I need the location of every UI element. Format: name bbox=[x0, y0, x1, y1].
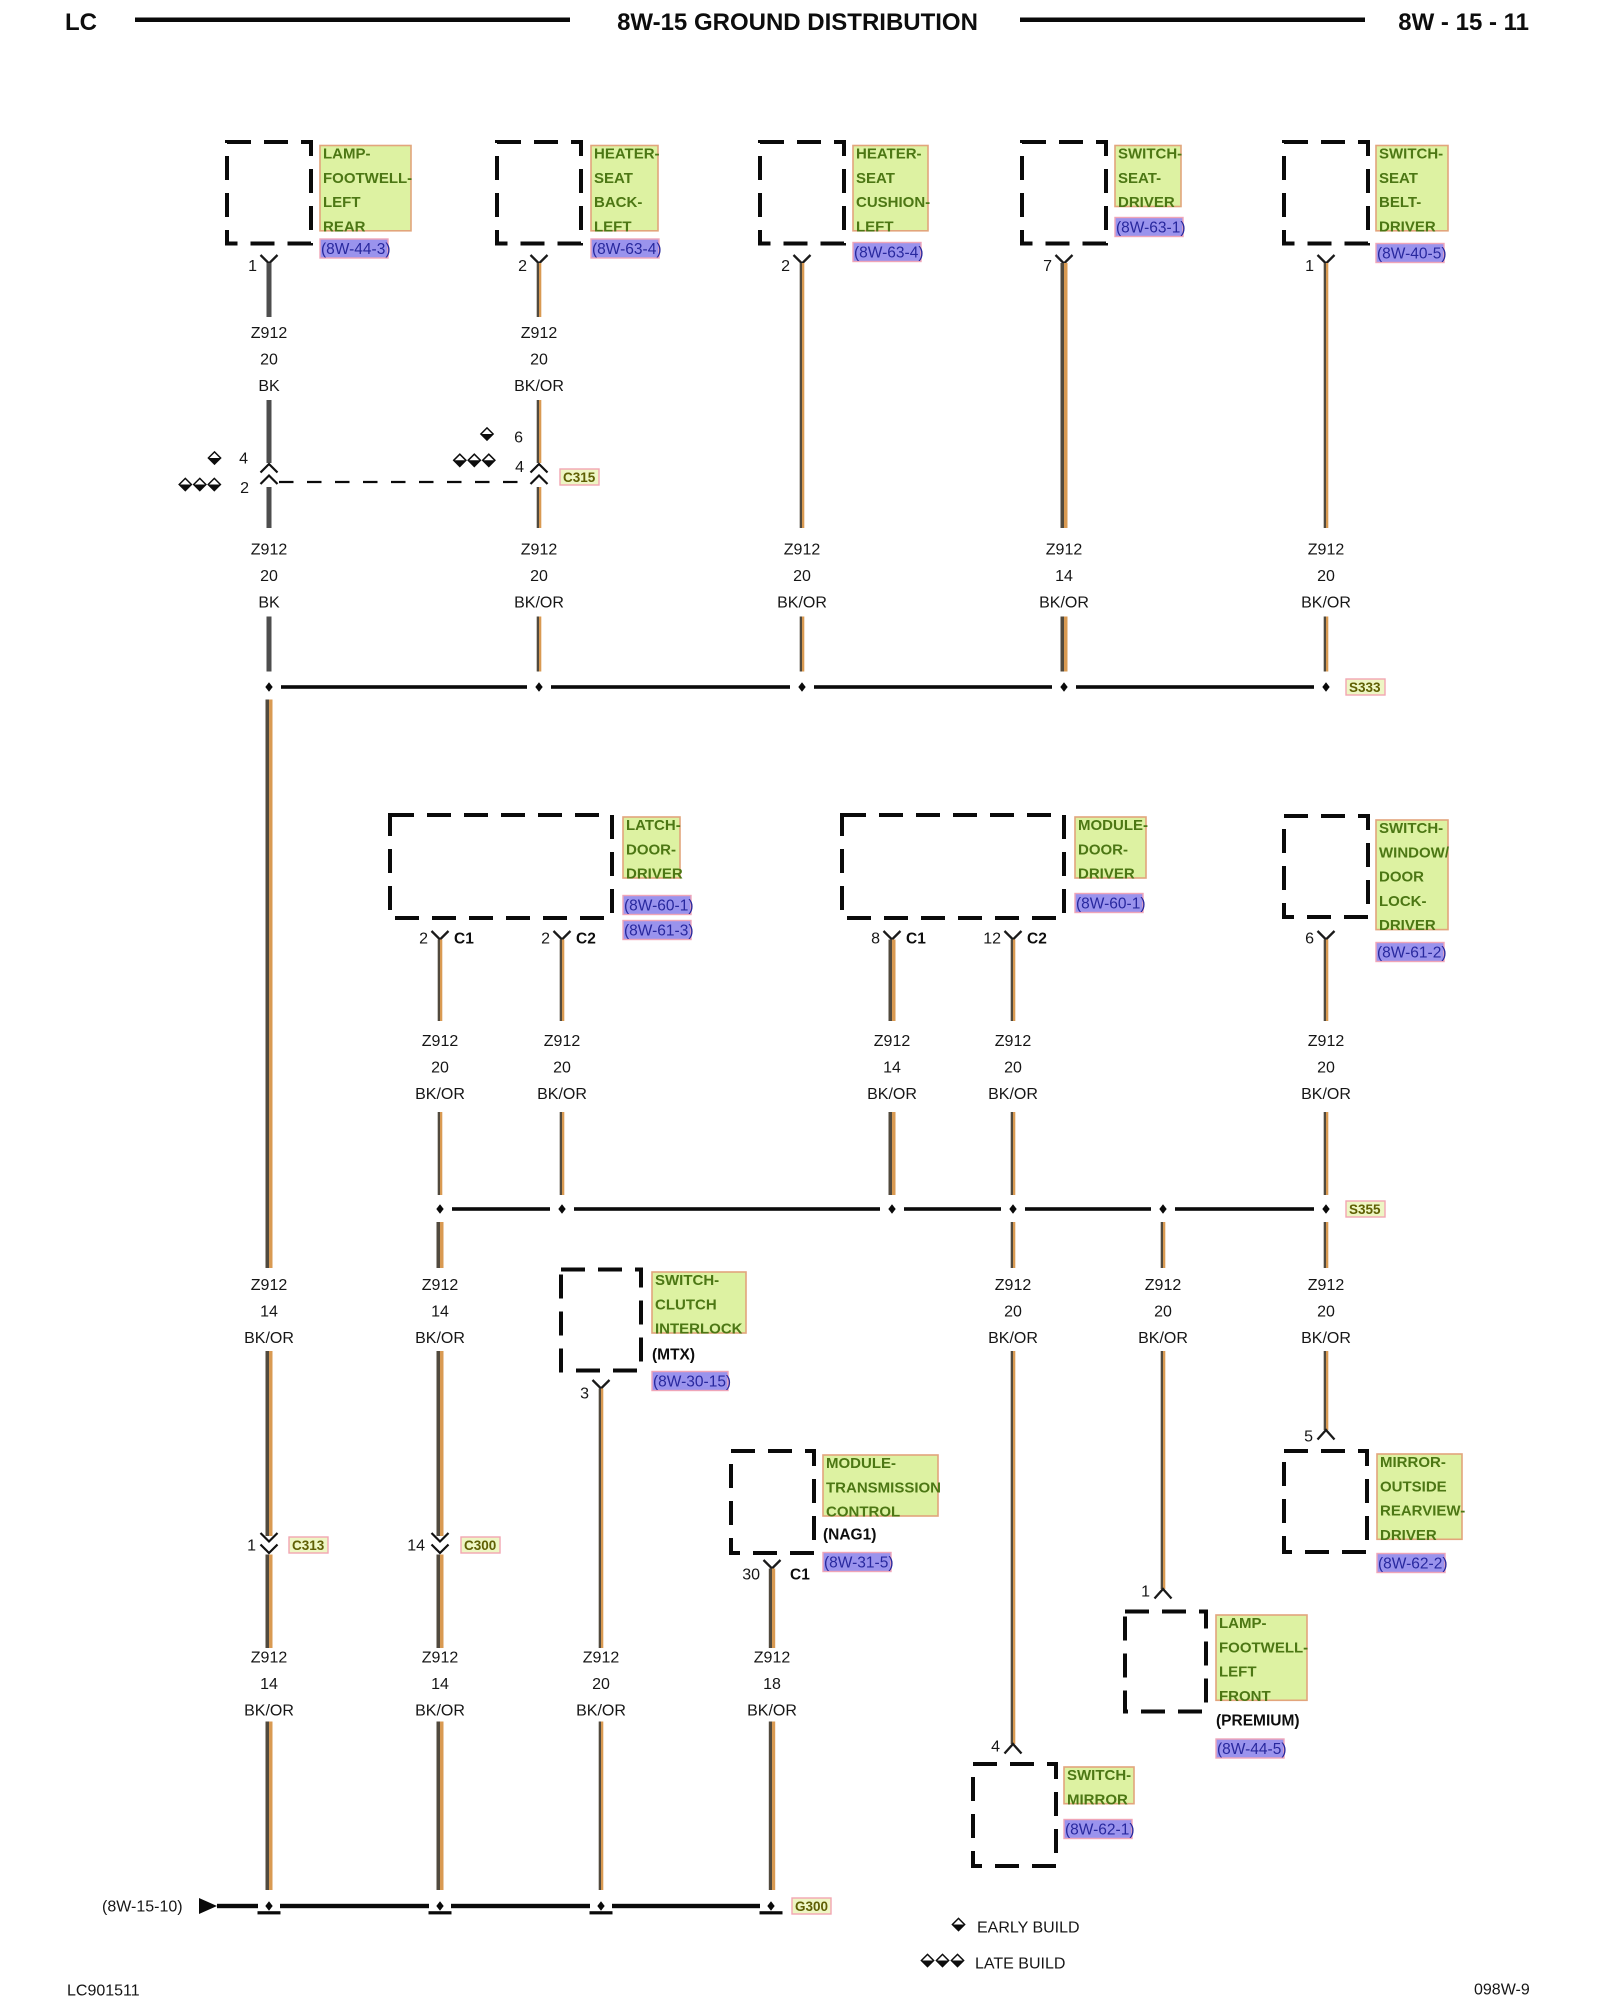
svg-text:LEFT: LEFT bbox=[594, 218, 632, 235]
svg-text:TRANSMISSION: TRANSMISSION bbox=[826, 1479, 941, 1496]
svg-text:2: 2 bbox=[419, 930, 428, 947]
svg-text:20: 20 bbox=[530, 568, 548, 585]
header rule right bbox=[1020, 18, 1365, 23]
svg-text:(8W-61-2): (8W-61-2) bbox=[1377, 944, 1446, 961]
page ref (8W-63-1) bbox=[1115, 218, 1183, 237]
svg-text:C1: C1 bbox=[790, 1566, 810, 1583]
svg-text:(8W-15-10): (8W-15-10) bbox=[102, 1898, 183, 1915]
svg-text:Z912: Z912 bbox=[583, 1649, 620, 1666]
wire Z912 14 BK/OR below S355 (x=440) bbox=[437, 1222, 441, 1268]
svg-text:(8W-60-1): (8W-60-1) bbox=[1076, 895, 1145, 912]
svg-text:18: 18 bbox=[763, 1676, 781, 1693]
svg-text:BK/OR: BK/OR bbox=[988, 1086, 1038, 1103]
wire segment bbox=[1324, 617, 1326, 672]
svg-text:(NAG1): (NAG1) bbox=[823, 1527, 876, 1544]
svg-text:CLUTCH: CLUTCH bbox=[655, 1296, 717, 1313]
wire segment bbox=[437, 1351, 441, 1536]
component box: HEATER-SEAT BACK-LEFT bbox=[497, 142, 581, 244]
svg-text:20: 20 bbox=[530, 351, 548, 368]
component box: LAMP-FOOTWELL-LEFT REAR bbox=[227, 142, 311, 244]
svg-text:2: 2 bbox=[781, 258, 790, 275]
svg-text:LOCK-: LOCK- bbox=[1379, 893, 1427, 910]
svg-text:DOOR-: DOOR- bbox=[1078, 841, 1128, 858]
svg-text:BK/OR: BK/OR bbox=[244, 1702, 294, 1719]
svg-text:2: 2 bbox=[518, 258, 527, 275]
wire Z912 20 BK/OR (x=1326) bbox=[1324, 940, 1326, 1022]
svg-text:7: 7 bbox=[1043, 258, 1052, 275]
header rule left bbox=[135, 18, 570, 23]
page ref (8W-63-4) bbox=[591, 239, 659, 258]
svg-text:20: 20 bbox=[260, 351, 278, 368]
name label: SWITCH-CLUTCH INTERLOCK bbox=[652, 1272, 746, 1333]
svg-text:DRIVER: DRIVER bbox=[1379, 218, 1436, 235]
name label: SWITCH-WINDOW/DOOR LOCK-DRIVER bbox=[1376, 820, 1448, 930]
wire Z912 BK/OR from HEATER-SEAT BACK-LEFT pin 2 bbox=[537, 263, 539, 317]
svg-text:SWITCH-: SWITCH- bbox=[1379, 146, 1443, 163]
svg-text:SWITCH-: SWITCH- bbox=[1118, 146, 1182, 163]
svg-text:Z912: Z912 bbox=[1308, 1033, 1345, 1050]
svg-text:Z912: Z912 bbox=[1145, 1277, 1182, 1294]
svg-text:LEFT: LEFT bbox=[1219, 1664, 1257, 1681]
svg-text:(8W-44-5): (8W-44-5) bbox=[1217, 1741, 1286, 1758]
pin 6 connector fork bbox=[1318, 931, 1335, 940]
wire segment below C313 bbox=[266, 1555, 270, 1649]
svg-text:5: 5 bbox=[1304, 1428, 1313, 1445]
svg-text:BK/OR: BK/OR bbox=[537, 1086, 587, 1103]
name label: MIRROR-OUTSIDE REARVIEW-DRIVER bbox=[1377, 1454, 1462, 1539]
svg-text:Z912: Z912 bbox=[995, 1277, 1032, 1294]
wire segment below C315 (wire 2) bbox=[537, 487, 539, 528]
wire Z912 14 BK/OR from S333 down (left column) bbox=[266, 700, 270, 1269]
pin 4 connector chevron bbox=[1005, 1744, 1022, 1754]
legend late-build diamonds bbox=[921, 1954, 933, 1966]
svg-text:S333: S333 bbox=[1349, 680, 1381, 695]
svg-text:S355: S355 bbox=[1349, 1202, 1381, 1217]
pin 30 connector fork C1 bbox=[764, 1560, 781, 1569]
svg-text:FOOTWELL-: FOOTWELL- bbox=[1219, 1639, 1308, 1656]
svg-text:4: 4 bbox=[239, 450, 248, 467]
pin 2 connector fork C1 bbox=[432, 931, 449, 940]
svg-text:098W-9: 098W-9 bbox=[1474, 1981, 1530, 1998]
svg-text:(8W-62-1): (8W-62-1) bbox=[1065, 1821, 1134, 1838]
svg-text:C1: C1 bbox=[906, 930, 926, 947]
connector C315 chevrons on wire 2 bbox=[531, 464, 548, 473]
svg-text:Z912: Z912 bbox=[874, 1033, 911, 1050]
ground bus G300 bbox=[217, 1904, 258, 1908]
pin 2 connector fork C2 bbox=[554, 931, 571, 940]
name label: LAMP-FOOTWELL-LEFT FRONT bbox=[1216, 1615, 1307, 1700]
pin 12 connector fork C2 bbox=[1005, 931, 1022, 940]
svg-text:1: 1 bbox=[1305, 258, 1314, 275]
wire segment bbox=[1061, 617, 1065, 672]
svg-text:DOOR: DOOR bbox=[1379, 869, 1424, 886]
splice label S355 bbox=[1346, 1201, 1385, 1217]
svg-text:Z912: Z912 bbox=[521, 541, 558, 558]
page ref (8W-30-15) bbox=[652, 1372, 728, 1391]
pin 2 connector fork bbox=[794, 255, 811, 264]
svg-text:EARLY BUILD: EARLY BUILD bbox=[977, 1919, 1080, 1936]
wire segment to G300 bbox=[437, 1722, 441, 1891]
svg-text:20: 20 bbox=[1004, 1060, 1022, 1077]
svg-text:Z912: Z912 bbox=[251, 325, 288, 342]
wire segment down to switch-mirror bbox=[1011, 1351, 1013, 1744]
page ref (8W-61-2) bbox=[1376, 943, 1444, 962]
svg-text:BK/OR: BK/OR bbox=[415, 1702, 465, 1719]
svg-text:Z912: Z912 bbox=[422, 1277, 459, 1294]
svg-text:20: 20 bbox=[553, 1060, 571, 1077]
pin 5 connector chevron bbox=[1318, 1430, 1335, 1440]
svg-text:C2: C2 bbox=[1027, 930, 1047, 947]
svg-text:BK/OR: BK/OR bbox=[1301, 594, 1351, 611]
svg-text:30: 30 bbox=[742, 1566, 760, 1583]
junction at x=802 on S333 bbox=[798, 682, 805, 691]
wire Z912 BK/OR from SWITCH-SEAT-DRIVER pin 7 bbox=[1061, 263, 1065, 528]
name label: MODULE-DOOR-DRIVER bbox=[1075, 817, 1146, 878]
page ref (8W-44-5) bbox=[1216, 1739, 1284, 1758]
component box: SWITCH-SEAT-DRIVER bbox=[1022, 142, 1106, 244]
svg-text:20: 20 bbox=[1154, 1303, 1172, 1320]
wire segment bbox=[267, 400, 272, 463]
component box: SWITCH-MIRROR bbox=[973, 1764, 1056, 1866]
svg-text:BK/OR: BK/OR bbox=[867, 1086, 917, 1103]
svg-text:(8W-62-2): (8W-62-2) bbox=[1378, 1555, 1447, 1572]
junction at x=562 on S355 bbox=[558, 1204, 565, 1213]
svg-text:Z912: Z912 bbox=[544, 1033, 581, 1050]
svg-text:8W - 15 - 11: 8W - 15 - 11 bbox=[1398, 9, 1529, 36]
svg-text:HEATER-: HEATER- bbox=[856, 146, 922, 163]
late build diamonds (wire 1, pin 2) bbox=[179, 478, 191, 490]
svg-text:14: 14 bbox=[260, 1303, 278, 1320]
component box: MIRROR-OUTSIDE REARVIEW-DRIVER bbox=[1284, 1451, 1367, 1552]
svg-text:INTERLOCK: INTERLOCK bbox=[655, 1321, 743, 1338]
wire Z912 20 BK/OR (x=440) bbox=[438, 940, 440, 1022]
wire Z912 20 BK/OR (x=562) bbox=[560, 940, 562, 1022]
wire Z912 20 BK/OR below S355 (x=1326) bbox=[1324, 1222, 1326, 1268]
svg-text:C313: C313 bbox=[292, 1538, 325, 1553]
dashed tie line between C315 halves bbox=[279, 481, 529, 483]
svg-text:BK/OR: BK/OR bbox=[747, 1702, 797, 1719]
junction at x=1013 on S355 bbox=[1009, 1204, 1016, 1213]
svg-text:(8W-61-3): (8W-61-3) bbox=[624, 922, 693, 939]
svg-text:LEFT: LEFT bbox=[856, 218, 894, 235]
svg-text:20: 20 bbox=[1317, 1060, 1335, 1077]
svg-text:SEAT-: SEAT- bbox=[1118, 170, 1161, 187]
svg-text:14: 14 bbox=[1055, 568, 1073, 585]
svg-text:LAMP-: LAMP- bbox=[1219, 1615, 1267, 1632]
component box: MODULE-TRANSMISSION CONTROL bbox=[731, 1451, 814, 1553]
svg-text:LATE BUILD: LATE BUILD bbox=[975, 1955, 1065, 1972]
svg-text:BELT-: BELT- bbox=[1379, 194, 1421, 211]
svg-text:DRIVER: DRIVER bbox=[1118, 194, 1175, 211]
pin 8 connector fork C1 bbox=[884, 931, 901, 940]
svg-text:2: 2 bbox=[541, 930, 550, 947]
wire segment bbox=[537, 400, 539, 463]
svg-text:REAR: REAR bbox=[323, 218, 366, 235]
component box: SWITCH-WINDOW/DOOR LOCK-DRIVER bbox=[1284, 816, 1368, 917]
svg-text:Z912: Z912 bbox=[995, 1033, 1032, 1050]
svg-text:SWITCH-: SWITCH- bbox=[1379, 820, 1443, 837]
pin 1 connector chevron bbox=[1155, 1589, 1172, 1599]
name label: SWITCH-SEAT-DRIVER bbox=[1115, 146, 1181, 207]
svg-text:LEFT: LEFT bbox=[323, 194, 361, 211]
ground junction at x=440 bbox=[436, 1901, 443, 1910]
svg-text:LAMP-: LAMP- bbox=[323, 146, 371, 163]
wire segment below C300 bbox=[437, 1555, 441, 1649]
svg-text:(8W-30-15): (8W-30-15) bbox=[653, 1373, 731, 1390]
svg-text:LC: LC bbox=[65, 9, 97, 36]
svg-text:8W-15 GROUND DISTRIBUTION: 8W-15 GROUND DISTRIBUTION bbox=[617, 9, 978, 36]
name label: SWITCH-MIRROR bbox=[1064, 1767, 1134, 1804]
connector C313 chevrons bbox=[261, 1533, 278, 1542]
wire Z912 20 BK/OR below S355 (x=1013) bbox=[1011, 1222, 1013, 1268]
page ref (8W-31-5) bbox=[823, 1553, 891, 1572]
pin 2 connector fork bbox=[531, 255, 548, 264]
svg-text:(PREMIUM): (PREMIUM) bbox=[1216, 1713, 1300, 1730]
svg-text:FOOTWELL-: FOOTWELL- bbox=[323, 170, 412, 187]
svg-text:8: 8 bbox=[871, 930, 880, 947]
connector C300 chevrons bbox=[432, 1533, 449, 1542]
page ref (8W-44-3) bbox=[320, 239, 388, 258]
ground junction at x=771 bbox=[767, 1901, 774, 1910]
svg-text:4: 4 bbox=[515, 459, 524, 476]
wire Z912 18 BK/OR from TCM bbox=[769, 1569, 772, 1649]
svg-text:Z912: Z912 bbox=[251, 1649, 288, 1666]
svg-text:14: 14 bbox=[407, 1537, 425, 1554]
wire segment bbox=[1324, 1112, 1326, 1195]
svg-text:SEAT: SEAT bbox=[1379, 170, 1418, 187]
svg-text:6: 6 bbox=[1305, 930, 1314, 947]
page ref (8W-62-1) bbox=[1064, 1820, 1132, 1839]
svg-text:1: 1 bbox=[247, 1537, 256, 1554]
svg-text:SEAT: SEAT bbox=[594, 170, 633, 187]
svg-text:14: 14 bbox=[260, 1676, 278, 1693]
name label: HEATER-SEAT BACK-LEFT bbox=[591, 146, 658, 231]
svg-text:BK/OR: BK/OR bbox=[1039, 594, 1089, 611]
svg-text:OUTSIDE: OUTSIDE bbox=[1380, 1478, 1447, 1495]
page ref (8W-60-1) bbox=[623, 896, 691, 915]
wire Z912 20 BK/OR below S355 (x=1163) bbox=[1161, 1222, 1163, 1268]
svg-text:BK/OR: BK/OR bbox=[514, 594, 564, 611]
wire segment down to footwell lamp bbox=[1161, 1351, 1163, 1589]
wire segment bbox=[537, 617, 539, 672]
page ref (8W-40-5) bbox=[1376, 244, 1444, 263]
wire Z912 20 BK/OR from clutch switch bbox=[599, 1389, 601, 1649]
svg-text:MIRROR: MIRROR bbox=[1067, 1791, 1128, 1808]
name label: MODULE-TRANSMISSION CONTROL bbox=[823, 1455, 938, 1516]
svg-text:HEATER-: HEATER- bbox=[594, 146, 660, 163]
svg-text:20: 20 bbox=[260, 568, 278, 585]
connector label C300 bbox=[461, 1537, 500, 1553]
svg-text:SEAT: SEAT bbox=[856, 170, 895, 187]
wire segment bbox=[800, 617, 802, 672]
svg-text:DRIVER: DRIVER bbox=[1379, 917, 1436, 934]
connector C315 chevrons on wire 1 bbox=[261, 464, 278, 473]
svg-text:DRIVER: DRIVER bbox=[1380, 1527, 1437, 1544]
wire segment down to outside mirror bbox=[1324, 1351, 1326, 1430]
legend early-build diamond bbox=[952, 1918, 964, 1930]
junction at x=1326 on S355 bbox=[1322, 1204, 1329, 1213]
svg-text:BACK-: BACK- bbox=[594, 194, 642, 211]
junction at x=269 on S333 bbox=[265, 682, 272, 691]
svg-text:MIRROR-: MIRROR- bbox=[1380, 1454, 1446, 1471]
svg-text:(8W-31-5): (8W-31-5) bbox=[824, 1554, 893, 1571]
svg-text:BK/OR: BK/OR bbox=[988, 1330, 1038, 1347]
svg-text:BK/OR: BK/OR bbox=[415, 1086, 465, 1103]
component box: HEATER-SEAT CUSHION-LEFT bbox=[760, 142, 844, 244]
svg-text:BK/OR: BK/OR bbox=[1138, 1330, 1188, 1347]
wire segment bbox=[266, 1351, 270, 1536]
svg-text:(8W-63-4): (8W-63-4) bbox=[854, 244, 923, 261]
svg-text:14: 14 bbox=[431, 1303, 449, 1320]
wire Z912 BK from LAMP-FOOTWELL-LEFT REAR pin 1 bbox=[267, 263, 272, 317]
svg-text:6: 6 bbox=[514, 429, 523, 446]
svg-text:20: 20 bbox=[1317, 1303, 1335, 1320]
svg-text:DOOR-: DOOR- bbox=[626, 841, 676, 858]
splice bus S333 bbox=[281, 685, 527, 689]
svg-text:SWITCH-: SWITCH- bbox=[1067, 1767, 1131, 1784]
name label: LAMP-FOOTWELL-LEFT REAR bbox=[320, 146, 411, 231]
svg-text:BK/OR: BK/OR bbox=[777, 594, 827, 611]
svg-text:DRIVER: DRIVER bbox=[1078, 866, 1135, 883]
wire Z912 BK/OR from SWITCH-SEAT BELT-DRIVER pin 1 bbox=[1324, 263, 1326, 528]
svg-text:4: 4 bbox=[991, 1738, 1000, 1755]
svg-text:C1: C1 bbox=[454, 930, 474, 947]
svg-text:(8W-44-3): (8W-44-3) bbox=[321, 241, 390, 258]
svg-text:MODULE-: MODULE- bbox=[826, 1455, 896, 1472]
connector label C313 bbox=[289, 1537, 328, 1553]
svg-text:CUSHION-: CUSHION- bbox=[856, 194, 930, 211]
component box: LATCH-DOOR-DRIVER bbox=[390, 815, 612, 918]
junction at x=892 on S355 bbox=[888, 1204, 895, 1213]
wire segment to G300 bbox=[266, 1722, 270, 1891]
svg-text:C315: C315 bbox=[563, 470, 596, 485]
late build diamonds (wire 2, pin 4) bbox=[454, 454, 466, 466]
off-page arrow bbox=[199, 1898, 217, 1914]
svg-text:BK/OR: BK/OR bbox=[514, 378, 564, 395]
wire segment bbox=[267, 617, 272, 672]
page ref (8W-63-4) bbox=[853, 243, 921, 262]
svg-text:LC901511: LC901511 bbox=[67, 1982, 140, 1999]
wire segment to G300 bbox=[599, 1722, 601, 1891]
svg-text:REARVIEW-: REARVIEW- bbox=[1380, 1503, 1465, 1520]
ground label G300 bbox=[792, 1898, 831, 1914]
page ref (8W-60-1) bbox=[1075, 894, 1143, 913]
page ref (8W-61-3) bbox=[623, 921, 691, 940]
junction at x=440 on S355 bbox=[436, 1204, 443, 1213]
svg-text:(8W-60-1): (8W-60-1) bbox=[624, 897, 693, 914]
svg-text:Z912: Z912 bbox=[754, 1649, 791, 1666]
svg-text:Z912: Z912 bbox=[784, 541, 821, 558]
svg-text:BK: BK bbox=[258, 594, 280, 611]
pin 7 connector fork bbox=[1056, 255, 1073, 264]
svg-text:Z912: Z912 bbox=[422, 1033, 459, 1050]
svg-text:1: 1 bbox=[248, 258, 257, 275]
svg-text:BK/OR: BK/OR bbox=[244, 1330, 294, 1347]
svg-text:(MTX): (MTX) bbox=[652, 1347, 695, 1364]
svg-text:12: 12 bbox=[983, 930, 1001, 947]
svg-text:2: 2 bbox=[240, 480, 249, 497]
svg-text:1: 1 bbox=[1141, 1583, 1150, 1600]
svg-text:LATCH-: LATCH- bbox=[626, 817, 681, 834]
component box: LAMP-FOOTWELL-LEFT FRONT bbox=[1125, 1612, 1206, 1712]
wire segment bbox=[1011, 1112, 1013, 1195]
name label: LATCH-DOOR-DRIVER bbox=[623, 817, 680, 878]
svg-text:Z912: Z912 bbox=[251, 1277, 288, 1294]
svg-text:(8W-40-5): (8W-40-5) bbox=[1377, 245, 1446, 262]
wire segment bbox=[889, 1112, 893, 1195]
component box: SWITCH-SEAT BELT-DRIVER bbox=[1284, 142, 1368, 244]
svg-text:20: 20 bbox=[1004, 1303, 1022, 1320]
svg-text:3: 3 bbox=[580, 1385, 589, 1402]
svg-text:20: 20 bbox=[592, 1676, 610, 1693]
svg-text:(8W-63-4): (8W-63-4) bbox=[592, 241, 661, 258]
svg-text:Z912: Z912 bbox=[251, 541, 288, 558]
junction at x=539 on S333 bbox=[535, 682, 542, 691]
wire Z912 20 BK/OR (x=1013) bbox=[1011, 940, 1013, 1022]
svg-text:Z912: Z912 bbox=[1046, 541, 1083, 558]
splice bus S355 bbox=[452, 1207, 550, 1211]
svg-text:C300: C300 bbox=[464, 1538, 496, 1553]
wire Z912 BK/OR from HEATER-SEAT CUSHION-LEFT pin 2 bbox=[800, 263, 802, 528]
wire Z912 14 BK/OR (x=892) bbox=[889, 940, 893, 1022]
early build diamond (wire 1, pin 4) bbox=[208, 452, 220, 464]
svg-text:(8W-63-1): (8W-63-1) bbox=[1116, 219, 1185, 236]
svg-text:BK: BK bbox=[258, 378, 280, 395]
svg-text:14: 14 bbox=[883, 1060, 901, 1077]
svg-text:20: 20 bbox=[431, 1060, 449, 1077]
early build diamond (wire 2, pin 6) bbox=[481, 428, 493, 440]
svg-text:G300: G300 bbox=[795, 1899, 828, 1914]
name label: HEATER-SEAT CUSHION-LEFT bbox=[853, 146, 928, 231]
svg-text:20: 20 bbox=[1317, 568, 1335, 585]
junction at x=1326 on S333 bbox=[1322, 682, 1329, 691]
component box: MODULE-DOOR-DRIVER bbox=[842, 815, 1064, 918]
wire segment below C315 (wire 1) bbox=[267, 487, 272, 528]
svg-text:WINDOW/: WINDOW/ bbox=[1379, 844, 1450, 861]
junction at x=1064 on S333 bbox=[1060, 682, 1067, 691]
svg-text:Z912: Z912 bbox=[521, 325, 558, 342]
junction at x=1163 on S355 bbox=[1159, 1204, 1166, 1213]
page ref (8W-62-2) bbox=[1377, 1554, 1445, 1573]
svg-text:20: 20 bbox=[793, 568, 811, 585]
ground junction at x=269 bbox=[265, 1901, 272, 1910]
svg-text:BK/OR: BK/OR bbox=[576, 1702, 626, 1719]
svg-text:CONTROL: CONTROL bbox=[826, 1504, 900, 1521]
svg-text:14: 14 bbox=[431, 1676, 449, 1693]
pin 1 connector fork bbox=[261, 255, 278, 264]
wire segment bbox=[438, 1112, 440, 1195]
wire segment to G300 bbox=[769, 1722, 772, 1891]
svg-text:BK/OR: BK/OR bbox=[415, 1330, 465, 1347]
component box: SWITCH-CLUTCH INTERLOCK bbox=[561, 1270, 641, 1371]
wire segment bbox=[560, 1112, 562, 1195]
svg-text:FRONT: FRONT bbox=[1219, 1688, 1271, 1705]
svg-text:Z912: Z912 bbox=[1308, 1277, 1345, 1294]
svg-text:Z912: Z912 bbox=[422, 1649, 459, 1666]
ground junction at x=601 bbox=[597, 1901, 604, 1910]
svg-text:BK/OR: BK/OR bbox=[1301, 1086, 1351, 1103]
svg-text:MODULE-: MODULE- bbox=[1078, 817, 1148, 834]
svg-text:Z912: Z912 bbox=[1308, 541, 1345, 558]
svg-text:SWITCH-: SWITCH- bbox=[655, 1272, 719, 1289]
svg-text:BK/OR: BK/OR bbox=[1301, 1330, 1351, 1347]
pin 3 connector fork bbox=[593, 1380, 610, 1389]
svg-text:C2: C2 bbox=[576, 930, 596, 947]
name label: SWITCH-SEAT BELT-DRIVER bbox=[1376, 146, 1448, 231]
splice label S333 bbox=[1346, 679, 1385, 695]
connector label C315 bbox=[560, 469, 599, 485]
svg-text:DRIVER: DRIVER bbox=[626, 866, 683, 883]
